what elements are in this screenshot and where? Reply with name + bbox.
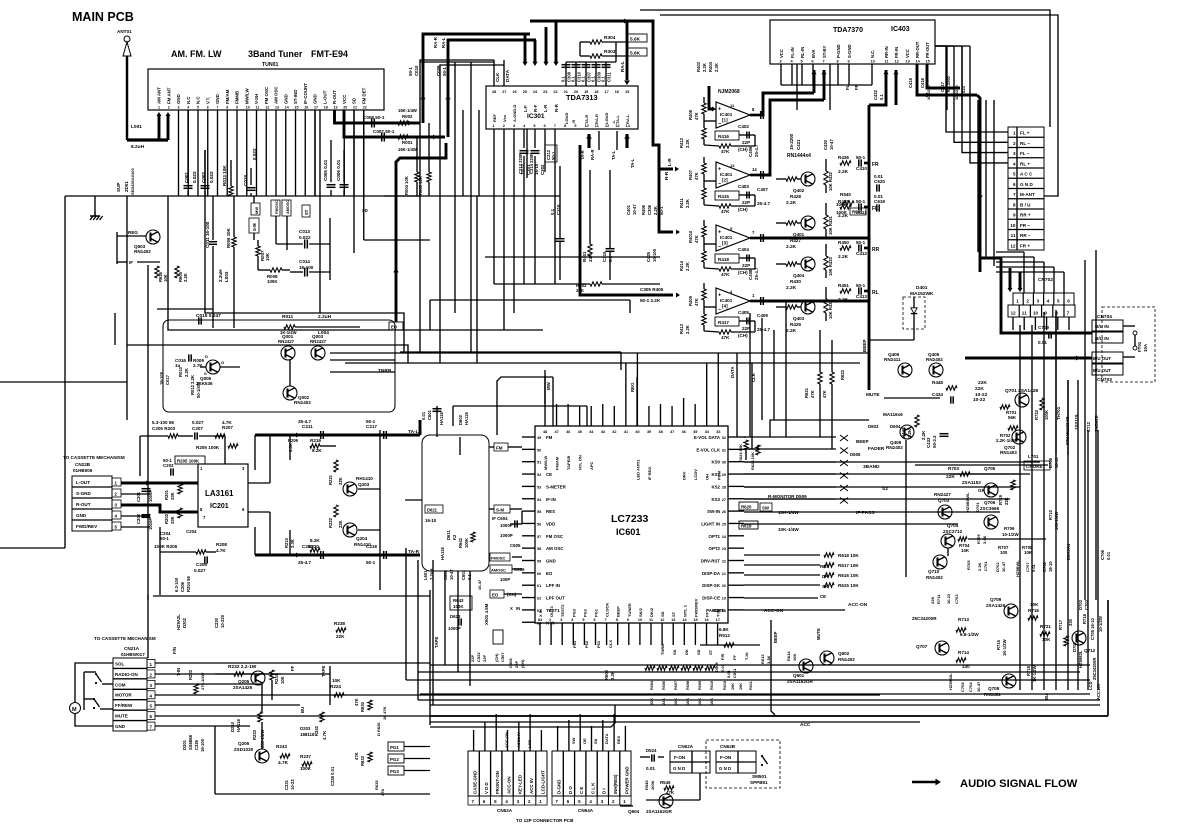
svg-text:E-VOL DATA: E-VOL DATA: [694, 435, 721, 440]
svg-text:47K: 47K: [721, 272, 730, 277]
svg-text:R642: R642: [458, 537, 463, 548]
transistor Q603 RN1402: [146, 230, 160, 244]
svg-text:R-OUT: R-OUT: [76, 502, 91, 507]
capacitor C008 50-1: [371, 119, 373, 128]
svg-text:8.2uH: 8.2uH: [131, 144, 145, 150]
svg-text:P63: P63: [572, 640, 577, 648]
svg-text:CN22B: CN22B: [75, 462, 91, 467]
resistor R430: [786, 262, 797, 266]
svg-text:R448: R448: [932, 380, 943, 385]
svg-text:D509: D509: [714, 662, 719, 672]
svg-text:R429: R429: [790, 322, 801, 327]
svg-text:EO: EO: [492, 593, 499, 598]
connector CN64A table vertical: [552, 751, 631, 796]
svg-text:C305 R405: C305 R405: [640, 287, 664, 292]
svg-text:R633: R633: [360, 755, 365, 766]
svg-text:AM. FM. LW: AM. FM. LW: [171, 49, 222, 59]
svg-text:10K: 10K: [686, 698, 690, 705]
svg-text:LCD-LIGHT: LCD-LIGHT: [540, 770, 545, 794]
svg-text:RES: RES: [820, 564, 829, 569]
svg-text:C010: C010: [414, 65, 419, 76]
svg-text:MOTOR: MOTOR: [115, 693, 132, 698]
diode symbols fan: [840, 435, 848, 441]
resistor R619 box: [739, 521, 758, 529]
svg-text:M: M: [72, 707, 77, 713]
svg-text:10: 10: [246, 106, 250, 110]
wire bold top long: [530, 20, 628, 23]
svg-text:R713: R713: [958, 617, 969, 622]
svg-text:47K: 47K: [822, 390, 827, 398]
svg-text:1000P: 1000P: [148, 490, 153, 502]
svg-text:R622: R622: [840, 369, 845, 380]
svg-text:25-4.7: 25-4.7: [298, 560, 311, 565]
svg-text:CLK: CLK: [495, 72, 500, 82]
svg-text:RN1403: RN1403: [1000, 450, 1017, 455]
svg-text:Q701 2SA1428: Q701 2SA1428: [1005, 388, 1038, 394]
svg-text:10K R432: 10K R432: [828, 171, 833, 191]
svg-text:X: X: [510, 606, 513, 611]
svg-text:50-1/4W: 50-1/4W: [196, 382, 201, 398]
capacitor C311 0.1: [605, 62, 607, 86]
wire SD pin extended: [353, 110, 355, 253]
svg-text:IF REG: IF REG: [647, 467, 652, 480]
svg-text:R436: R436: [838, 155, 849, 160]
svg-text:TH701: TH701: [1056, 406, 1061, 420]
svg-text:2: 2: [503, 124, 505, 128]
wire ground rail: [65, 195, 560, 197]
resistor R643 100K box: [450, 596, 472, 610]
svg-text:R233: R233: [252, 729, 257, 740]
wire long bus 2: [64, 196, 66, 548]
capacitor C308 0.1: [565, 62, 567, 86]
svg-text:2SC2712: 2SC2712: [943, 529, 963, 534]
svg-text:IN: IN: [516, 606, 520, 611]
wire IC403 to connector links: [946, 46, 1008, 132]
svg-text:2.2K: 2.2K: [921, 430, 926, 440]
svg-text:R613: R613: [760, 654, 765, 664]
svg-text:Q706: Q706: [984, 500, 996, 505]
svg-text:SW: SW: [571, 737, 576, 744]
svg-text:FR: FR: [854, 83, 859, 90]
svg-text:17: 17: [605, 90, 609, 94]
svg-text:2.2K: 2.2K: [685, 325, 690, 334]
wire bold to op3: [659, 145, 673, 232]
wire tuner pin down: [265, 110, 267, 196]
svg-text:1K-1/2W: 1K-1/2W: [1002, 639, 1007, 656]
svg-text:RN2427: RN2427: [310, 339, 327, 344]
svg-text:100K: 100K: [836, 202, 848, 207]
wire vertical v774: [773, 330, 775, 420]
svg-text:IF-COUNT: IF-COUNT: [303, 83, 308, 104]
svg-text:L601: L601: [423, 570, 428, 580]
svg-text:57: 57: [537, 535, 541, 539]
svg-text:22: 22: [722, 560, 726, 564]
svg-text:RN2411: RN2411: [884, 357, 901, 362]
svg-text:R401: R401: [582, 251, 587, 262]
svg-text:FR-IN: FR-IN: [894, 47, 899, 58]
svg-text:C311: C311: [607, 72, 612, 82]
svg-text:C008 50-1: C008 50-1: [363, 115, 385, 120]
wire y248: [485, 256, 660, 258]
svg-text:TUN01: TUN01: [262, 62, 279, 68]
svg-text:TNRB: TNRB: [378, 368, 392, 374]
svg-text:KS2: KS2: [711, 484, 720, 489]
svg-text:5: 5: [1057, 299, 1060, 304]
wire bold main vertical right: [868, 105, 871, 390]
svg-text:59: 59: [537, 560, 541, 564]
svg-text:FF: FF: [705, 612, 710, 617]
svg-text:R607: R607: [674, 681, 678, 690]
wires evol: [744, 436, 746, 438]
svg-text:D706: D706: [1048, 457, 1053, 468]
svg-text:5.6K: 5.6K: [630, 51, 641, 57]
svg-text:50-1: 50-1: [659, 206, 664, 215]
svg-text:16: 16: [615, 90, 619, 94]
svg-text:0.1: 0.1: [561, 76, 566, 82]
svg-text:R616 10K: R616 10K: [838, 573, 859, 578]
capacitor C412: [858, 244, 860, 251]
svg-text:45: 45: [578, 430, 582, 434]
svg-text:VCC: VCC: [779, 49, 784, 58]
svg-text:FF/REW: FF/REW: [115, 703, 133, 708]
svg-text:BEEP: BEEP: [862, 339, 867, 352]
legend audio signal flow arrow: [912, 781, 936, 783]
svg-text:IF: IF: [129, 260, 133, 265]
svg-text:0.01: 0.01: [726, 669, 731, 678]
svg-text:T-IN: T-IN: [744, 652, 749, 660]
svg-text:0.022: 0.022: [299, 235, 311, 240]
svg-text:100K: 100K: [1044, 410, 1049, 420]
svg-text:MUTE: MUTE: [866, 392, 880, 398]
wire op-amp output bold: [750, 237, 760, 240]
svg-text:47K: 47K: [694, 172, 699, 180]
svg-text:L-OUT: L-OUT: [76, 480, 90, 485]
svg-text:FMT-E94: FMT-E94: [311, 49, 348, 59]
svg-text:3: 3: [1037, 299, 1040, 304]
svg-text:D401: D401: [916, 285, 928, 291]
wire tuner pin down: [246, 110, 248, 196]
svg-text:GND: GND: [176, 94, 181, 104]
svg-text:56K: 56K: [1008, 415, 1017, 420]
svg-text:R234: R234: [274, 673, 279, 684]
svg-text:AUDIO SIGNAL FLOW: AUDIO SIGNAL FLOW: [960, 778, 1078, 790]
svg-text:C416: C416: [920, 77, 925, 88]
svg-text:10K: 10K: [698, 698, 702, 705]
svg-text:C217: C217: [366, 424, 377, 429]
wire ladder IC403 down: [977, 100, 979, 252]
resistor R007 10K: [256, 246, 260, 256]
svg-text:50-1: 50-1: [442, 67, 447, 76]
svg-text:[2]: [2]: [722, 178, 728, 183]
resistor R436: [840, 161, 851, 165]
svg-text:9: 9: [236, 106, 238, 110]
resistor R432 10K vertical: [824, 171, 828, 185]
wires bottom misc: [646, 799, 700, 801]
resistor R414 2.2K vertical: [702, 251, 706, 262]
resistor R626 10K: [155, 266, 159, 278]
svg-text:3Band Tuner: 3Band Tuner: [248, 49, 303, 59]
wire weave v3: [470, 62, 472, 353]
svg-text:D210: D210: [230, 721, 235, 732]
wire bold B/U out: [965, 357, 1092, 360]
svg-text:IC401: IC401: [720, 235, 733, 240]
capacitor C310 0.1: [575, 62, 577, 86]
svg-text:6.8-1/2W: 6.8-1/2W: [960, 632, 979, 637]
svg-text:2.2K: 2.2K: [183, 273, 188, 282]
svg-text:10-1/2W: 10-1/2W: [1002, 532, 1019, 537]
svg-text:19: 19: [334, 106, 338, 110]
resistor R702 2.2K-1/4W: [1008, 426, 1018, 430]
svg-text:8.2K: 8.2K: [312, 448, 322, 453]
svg-text:R611: R611: [749, 681, 753, 690]
svg-text:C409: C409: [757, 313, 768, 318]
svg-text:47K: 47K: [694, 235, 699, 243]
svg-text:R706: R706: [1004, 526, 1015, 531]
wire tuner pin down: [285, 110, 287, 196]
svg-text:VDD: VDD: [546, 521, 555, 526]
svg-text:R004 10K: R004 10K: [404, 176, 409, 195]
resistor R416 47K feedback: [715, 191, 739, 200]
op-amp IC401 [4]: [716, 288, 750, 314]
svg-text:D-GND: D-GND: [557, 780, 562, 794]
svg-text:Q403: Q403: [793, 316, 805, 321]
svg-text:22P: 22P: [482, 655, 487, 662]
svg-text:Q601: Q601: [793, 673, 805, 678]
svg-text:R304: R304: [604, 35, 616, 41]
transistor Q409 RN2411: [898, 363, 912, 377]
svg-text:DK/2: DK/2: [649, 607, 654, 617]
svg-text:N.C.: N.C.: [870, 50, 875, 58]
svg-text:C019: C019: [243, 175, 248, 186]
svg-text:ANT01: ANT01: [117, 29, 132, 34]
svg-text:50-1 2.2K: 50-1 2.2K: [640, 298, 661, 303]
wire tuner pin down: [353, 110, 355, 196]
svg-text:100K: 100K: [836, 210, 848, 215]
svg-text:35: 35: [693, 430, 697, 434]
svg-text:8: 8: [616, 618, 618, 622]
svg-text:15: 15: [625, 90, 629, 94]
connector pin 10 FR −: [1008, 218, 1044, 220]
svg-text:10A: 10A: [1143, 343, 1148, 352]
transistor Q602 RN1402: [820, 651, 834, 665]
svg-text:47: 47: [555, 430, 559, 434]
svg-text:SK: SK: [822, 584, 829, 589]
svg-text:FM OSC: FM OSC: [264, 86, 269, 104]
svg-text:RN2402: RN2402: [926, 357, 943, 362]
svg-text:RN1402: RN1402: [838, 657, 855, 662]
svg-text:IC401: IC401: [720, 298, 733, 303]
svg-text:+: +: [718, 293, 721, 299]
svg-text:D524: D524: [646, 748, 657, 753]
svg-text:V-SH: V-SH: [254, 94, 259, 104]
svg-text:C231: C231: [284, 779, 289, 790]
svg-text:APC: APC: [589, 461, 594, 470]
svg-text:L-OUT: L-OUT: [322, 90, 327, 104]
svg-text:C315: C315: [602, 251, 607, 262]
svg-text:F/R: F/R: [720, 653, 725, 660]
svg-text:Q705: Q705: [984, 466, 996, 471]
svg-text:G N D: G N D: [673, 766, 685, 771]
svg-text:27: 27: [722, 498, 726, 502]
svg-text:10: 10: [638, 618, 642, 622]
wire vertical v762: [761, 318, 763, 420]
svg-text:OH: OH: [705, 474, 710, 480]
svg-text:CN702: CN702: [1038, 277, 1053, 283]
svg-text:P62: P62: [584, 640, 589, 648]
svg-text:Q404: Q404: [793, 273, 805, 278]
svg-text:C706: C706: [1100, 549, 1105, 560]
svg-text:10-47: 10-47: [449, 569, 454, 580]
transistor Q402: [801, 172, 815, 186]
svg-text:R413: R413: [679, 323, 684, 334]
svg-text:RN2427: RN2427: [934, 492, 951, 497]
svg-text:12: 12: [895, 60, 899, 64]
svg-text:RES: RES: [616, 735, 621, 744]
svg-text:10K: 10K: [280, 676, 285, 684]
svg-text:R-R: R-R: [554, 103, 559, 112]
svg-text:R546: R546: [660, 780, 671, 785]
wire F-ON link: [658, 756, 664, 758]
resistor R407 47K vertical: [702, 163, 706, 174]
svg-text:C435: C435: [646, 251, 651, 262]
svg-text:47K: 47K: [721, 335, 730, 340]
transistor Q204 RN1410: [343, 523, 357, 537]
svg-text:R719: R719: [998, 494, 1003, 505]
svg-text:ST: ST: [304, 209, 309, 215]
resistor ladder R604-R609 on bus: [645, 666, 655, 671]
svg-text:25-4.7: 25-4.7: [757, 327, 770, 332]
svg-text:RADIO-ON: RADIO-ON: [115, 672, 138, 677]
svg-text:56: 56: [537, 522, 541, 526]
svg-text:RR −: RR −: [1020, 233, 1031, 238]
svg-text:REF: REF: [492, 113, 497, 122]
wire right vertical frame: [1095, 250, 1097, 600]
svg-text:Q206: Q206: [238, 741, 250, 746]
wire top long 2: [660, 15, 1058, 196]
svg-text:25C34200R: 25C34200R: [1092, 658, 1097, 680]
svg-text:R210: R210: [284, 537, 289, 548]
svg-text:C402: C402: [738, 124, 749, 129]
svg-text:OPT2: OPT2: [709, 546, 721, 551]
svg-text:ST: ST: [708, 649, 713, 655]
svg-text:100K R206: 100K R206: [154, 544, 178, 549]
wire verticals to LC top: [620, 352, 622, 370]
svg-text:(CH): (CH): [738, 333, 748, 338]
svg-text:9: 9: [1013, 213, 1016, 218]
svg-text:SS6888: SS6888: [188, 734, 193, 750]
svg-text:DATA: DATA: [505, 69, 510, 82]
svg-text:15: 15: [295, 106, 299, 110]
svg-text:L-F: L-F: [523, 105, 528, 112]
svg-text:R411: R411: [679, 198, 684, 208]
resistor R605 2.2K: [175, 266, 179, 278]
svg-text:IF-IN: IF-IN: [546, 497, 556, 502]
svg-text:8: 8: [837, 60, 839, 64]
svg-text:FL-IN: FL-IN: [790, 47, 795, 58]
svg-text:47K: 47K: [694, 112, 699, 120]
capacitor C407 25-4.7: [760, 171, 762, 179]
svg-text:C017: C017: [165, 374, 170, 385]
svg-text:22K: 22K: [978, 380, 987, 386]
capacitor C307 0.1: [585, 62, 587, 86]
svg-text:R414: R414: [679, 260, 684, 271]
svg-text:C508: C508: [508, 658, 513, 668]
svg-text:22K: 22K: [338, 477, 343, 485]
svg-text:FR-OUT: FR-OUT: [925, 42, 930, 58]
svg-text:22K: 22K: [336, 634, 345, 639]
wire under-LC verticals: [444, 571, 446, 665]
svg-text:50-1: 50-1: [160, 536, 169, 541]
svg-text:C E: C E: [579, 787, 584, 794]
svg-text:R718: R718: [1082, 613, 1087, 624]
svg-text:AMOSC: AMOSC: [286, 200, 290, 214]
wire left edge lines: [0, 381, 127, 383]
svg-text:4: 4: [187, 106, 189, 110]
svg-text:GND: GND: [313, 94, 318, 104]
svg-text:FT01: FT01: [1137, 341, 1142, 352]
svg-text:C202: C202: [136, 513, 141, 524]
diode fan lines: [744, 436, 836, 438]
svg-text:BEEP: BEEP: [856, 439, 869, 444]
resistor R512 line: [700, 644, 760, 646]
svg-text:38: 38: [659, 430, 663, 434]
svg-text:27: 27: [502, 90, 506, 94]
svg-text:R222: R222: [328, 517, 333, 528]
svg-text:D201: D201: [182, 739, 187, 750]
svg-text:GND: GND: [215, 94, 220, 104]
resistor R405 47K vertical: [702, 289, 706, 300]
svg-text:R705: R705: [966, 560, 971, 570]
wire bold L-R to op2: [653, 100, 673, 169]
svg-text:2.2K: 2.2K: [786, 200, 797, 206]
svg-text:R223: R223: [188, 669, 193, 680]
svg-text:C433: C433: [926, 437, 931, 448]
svg-text:D611: D611: [446, 530, 451, 540]
svg-text:(CH): (CH): [738, 207, 748, 212]
svg-text:11: 11: [1022, 311, 1027, 316]
svg-text:13: 13: [730, 163, 735, 168]
svg-text:47K: 47K: [721, 209, 730, 214]
svg-text:R243: R243: [276, 744, 287, 749]
wire power rows: [915, 464, 1048, 466]
svg-text:R618 10K: R618 10K: [838, 553, 859, 558]
svg-text:18: 18: [594, 90, 598, 94]
svg-text:C603: C603: [461, 569, 466, 580]
svg-text:RR +: RR +: [1020, 213, 1031, 218]
svg-text:10K: 10K: [1030, 602, 1039, 607]
wire bold op3 output: [760, 237, 869, 240]
wire vc417: [946, 46, 948, 110]
resistor R234 10K vertical: [270, 670, 274, 680]
wire bold out RL: [864, 290, 869, 293]
wire Q cluster loop: [163, 320, 395, 412]
svg-text:01HBW017: 01HBW017: [121, 652, 145, 657]
wire bold output drop right: [977, 95, 980, 272]
resistor R433 10K vertical: [824, 256, 828, 270]
svg-text:SD: SD: [696, 649, 701, 655]
wire bold out FR: [864, 162, 869, 165]
svg-text:DK: DK: [684, 649, 689, 655]
svg-text:1000P: 1000P: [148, 518, 153, 530]
transistor Q601 2SA1162GR: [799, 659, 813, 673]
svg-text:D702: D702: [995, 562, 1000, 572]
svg-text:TA-L: TA-L: [615, 115, 620, 124]
svg-text:D701: D701: [975, 502, 980, 512]
svg-text:16: 16: [705, 618, 709, 622]
wire misc diagonals: [384, 195, 420, 197]
wire tuner pin down: [236, 110, 238, 196]
wire tuner pin down: [178, 110, 180, 196]
